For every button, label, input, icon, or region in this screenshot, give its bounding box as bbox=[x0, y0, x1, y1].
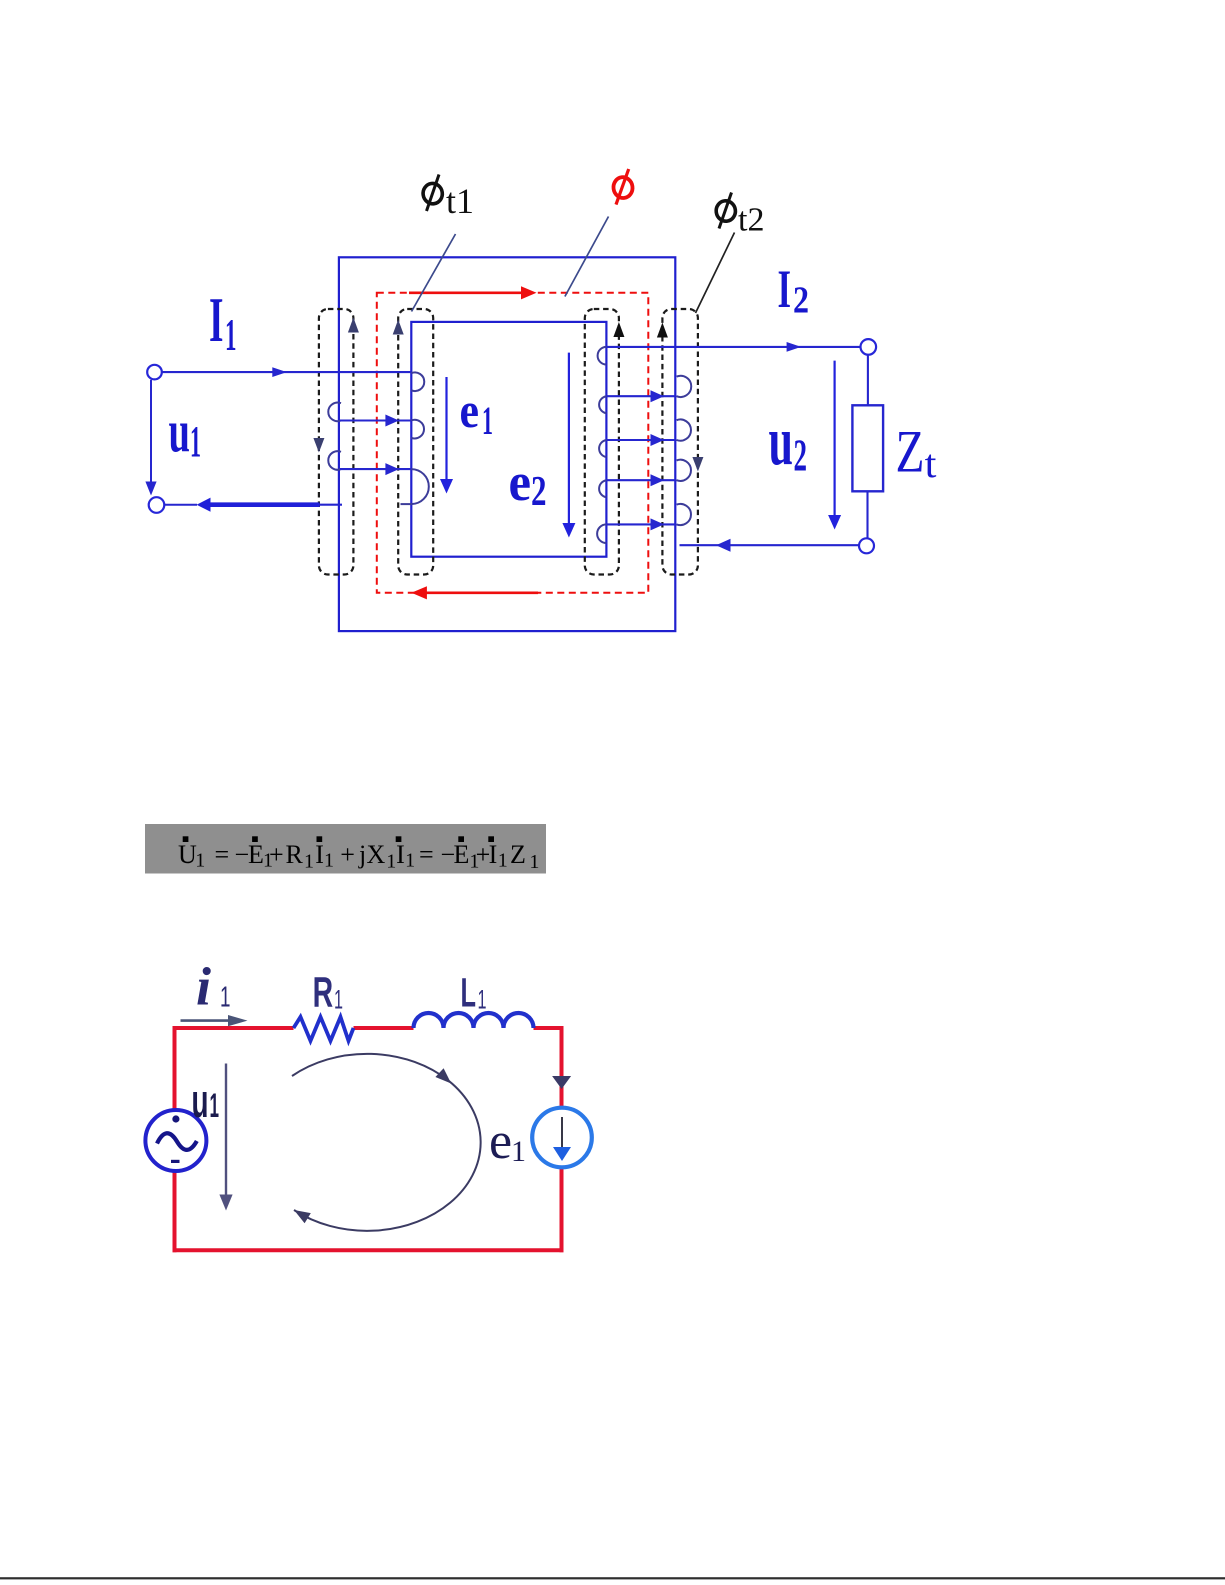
svg-text:I: I bbox=[315, 840, 324, 869]
svg-text:1: 1 bbox=[220, 982, 231, 1014]
primary winding arc right 1 bbox=[411, 372, 424, 391]
flux arrow phi bottom (red) bbox=[411, 586, 538, 599]
wire bottom-left lead (thick part) bbox=[209, 502, 320, 507]
svg-text:Z: Z bbox=[896, 419, 925, 485]
wire bottom-right lead bbox=[680, 544, 860, 546]
primary winding front wire 1 bbox=[340, 419, 411, 421]
wire top (red loop) bbox=[175, 1026, 294, 1030]
terminal circle bottom-right bbox=[859, 538, 874, 553]
label Zt bbox=[896, 419, 937, 486]
svg-text:2: 2 bbox=[531, 469, 547, 515]
label u2 bbox=[769, 403, 808, 481]
svg-text:i: i bbox=[196, 957, 211, 1017]
current arrow I2 on top-right lead bbox=[787, 342, 802, 352]
loop arrow top-right bbox=[435, 1068, 451, 1083]
svg-text:I: I bbox=[778, 259, 792, 319]
primary winding bottom stub bbox=[401, 503, 412, 505]
svg-text:X: X bbox=[367, 840, 386, 869]
svg-text:Z: Z bbox=[510, 840, 526, 869]
leakage flux loop phi-t1 inner (dashed rounded rect) bbox=[398, 309, 433, 575]
secondary winding front wire 1 bbox=[606, 395, 676, 397]
primary winding arc right 2 bbox=[411, 420, 424, 439]
wire top-right lead bbox=[606, 346, 860, 348]
svg-text:2: 2 bbox=[794, 429, 808, 480]
terminal circle top-right bbox=[861, 339, 877, 355]
wire bottom-left lead (thin continuation) bbox=[320, 504, 342, 506]
svg-text:t2: t2 bbox=[738, 202, 764, 239]
svg-text:L: L bbox=[461, 970, 477, 1016]
u1 voltage arrow (between terminals) bbox=[145, 380, 156, 496]
resistor R1 bbox=[294, 1017, 354, 1041]
page footer line bbox=[0, 1577, 1225, 1579]
label phi-t1 bbox=[422, 175, 474, 222]
secondary winding arc right 4 bbox=[677, 504, 691, 525]
i1 current arrow bbox=[181, 1015, 248, 1026]
label u1 bbox=[169, 399, 202, 467]
wire bottom-left lead (thin part near terminal) bbox=[165, 504, 198, 506]
current arrow on primary wire 2 bbox=[385, 463, 399, 475]
primary winding front wire 2 bbox=[340, 468, 411, 470]
current arrow I1 on top-left lead bbox=[272, 367, 287, 377]
secondary winding arc left 3 bbox=[599, 440, 606, 457]
u1 voltage arrow bbox=[219, 1064, 232, 1211]
svg-text:t: t bbox=[925, 441, 937, 486]
svg-text:E: E bbox=[454, 840, 470, 869]
u2 voltage arrow bbox=[828, 361, 841, 530]
e2 emf arrow bbox=[562, 353, 575, 538]
e1 emf arrow bbox=[440, 377, 453, 494]
svg-text:E: E bbox=[248, 840, 264, 869]
arrow on bottom-right lead bbox=[716, 539, 731, 552]
svg-text:u: u bbox=[169, 399, 191, 465]
svg-text:I: I bbox=[209, 284, 224, 355]
svg-text:1: 1 bbox=[386, 851, 396, 873]
arrow on bottom-left lead bbox=[197, 498, 211, 512]
wire top-left lead bbox=[162, 371, 411, 373]
svg-text:e: e bbox=[489, 1113, 512, 1170]
current arrow on secondary wire 4 bbox=[651, 518, 665, 530]
svg-text:U: U bbox=[178, 840, 197, 869]
leakage arrow up on left-outer loop bbox=[348, 318, 359, 333]
current arrow on secondary wire 3 bbox=[651, 474, 665, 486]
svg-text:t1: t1 bbox=[446, 181, 474, 221]
pointer line phi-t1 bbox=[412, 234, 456, 312]
current arrow on primary wire 1 bbox=[385, 415, 399, 427]
svg-text:1: 1 bbox=[482, 398, 493, 443]
svg-text:1: 1 bbox=[190, 417, 201, 466]
current arrow on secondary wire 2 bbox=[651, 434, 665, 446]
svg-text:2: 2 bbox=[793, 280, 809, 322]
svg-text:1: 1 bbox=[324, 850, 334, 872]
leakage arrow down on left-outer loop bbox=[313, 438, 324, 453]
label e2 (winding emf) bbox=[509, 452, 547, 515]
wire right (red loop) bbox=[560, 1026, 564, 1108]
leakage flux loop phi-t2 outer (dashed rounded rect) bbox=[662, 309, 698, 575]
svg-text:e: e bbox=[509, 452, 532, 512]
svg-text:1: 1 bbox=[304, 851, 314, 873]
svg-text:+: + bbox=[269, 840, 284, 869]
secondary winding arc left 1 bbox=[598, 347, 607, 365]
phasor dots over equation letters bbox=[183, 836, 494, 842]
label phi-t2 bbox=[715, 193, 765, 239]
svg-text:=: = bbox=[419, 840, 434, 869]
primary winding arc left 2 bbox=[328, 451, 341, 470]
secondary winding arc right 1 bbox=[677, 376, 692, 397]
svg-text:j: j bbox=[358, 840, 366, 869]
primary winding arc right 3 (large) bbox=[411, 469, 429, 504]
svg-text:R: R bbox=[286, 840, 304, 869]
equation background bbox=[145, 824, 546, 874]
svg-text:1: 1 bbox=[210, 1087, 220, 1125]
secondary winding arc left 2 bbox=[599, 396, 606, 413]
current arrow on secondary wire 1 bbox=[651, 390, 665, 402]
leakage arrow up on right-outer loop (black) bbox=[657, 323, 668, 338]
AC source u1 bbox=[145, 1110, 206, 1171]
svg-text:1: 1 bbox=[195, 850, 205, 872]
svg-text:1: 1 bbox=[529, 851, 539, 873]
svg-text:1: 1 bbox=[225, 309, 237, 360]
wire bottom (red loop) bbox=[173, 1248, 564, 1252]
loop direction ellipse bbox=[292, 1054, 481, 1231]
inductor L1 bbox=[414, 1013, 534, 1028]
wire right circuit upper bbox=[867, 355, 869, 406]
leakage arrow up on right-inner loop (black) bbox=[613, 322, 624, 337]
leakage flux loop phi-t2 inner (dashed rounded rect) bbox=[585, 309, 619, 575]
secondary winding arc right 3 bbox=[677, 460, 691, 481]
svg-text:I: I bbox=[396, 840, 405, 869]
svg-text:−: − bbox=[235, 840, 250, 869]
svg-text:+: + bbox=[340, 840, 355, 869]
core inner window rectangle bbox=[411, 322, 606, 557]
core outer rectangle bbox=[339, 257, 675, 631]
loop arrow bottom-left bbox=[294, 1210, 311, 1223]
svg-text:R: R bbox=[313, 969, 334, 1017]
secondary winding arc right 2 bbox=[677, 420, 691, 441]
secondary winding front wire 3 bbox=[606, 479, 676, 481]
wire left (red loop) bbox=[173, 1171, 177, 1253]
secondary winding front wire 2 bbox=[606, 439, 676, 441]
svg-text:u: u bbox=[769, 403, 794, 480]
svg-text:1: 1 bbox=[405, 850, 415, 872]
primary winding arc left 1 bbox=[328, 403, 341, 422]
terminal circle top-left bbox=[147, 365, 162, 380]
equation text bbox=[178, 840, 539, 873]
secondary winding arc left 5 bbox=[597, 524, 606, 543]
arrow on right wire bbox=[552, 1076, 571, 1089]
label I2 bbox=[778, 259, 810, 322]
leakage flux loop phi-t1 outer (dashed rounded rect) bbox=[319, 309, 354, 575]
main flux path (red dashed rectangle) bbox=[377, 293, 649, 593]
svg-text:1: 1 bbox=[511, 1135, 526, 1168]
svg-text:=: = bbox=[215, 840, 230, 869]
terminal circle bottom-left bbox=[149, 497, 165, 513]
label phi (red) bbox=[612, 169, 634, 205]
current source e1 bbox=[532, 1108, 592, 1168]
svg-text:1: 1 bbox=[498, 850, 508, 872]
svg-text:u: u bbox=[192, 1074, 209, 1127]
load impedance Zt box bbox=[852, 405, 883, 491]
svg-text:1: 1 bbox=[478, 985, 487, 1015]
label u1 bbox=[192, 1074, 220, 1127]
leakage arrow down on right-outer loop bbox=[692, 457, 703, 472]
svg-text:1: 1 bbox=[334, 985, 343, 1015]
leakage arrow up on left-inner loop bbox=[393, 320, 404, 335]
flux arrow phi top (red) bbox=[409, 286, 537, 299]
pointer line phi bbox=[565, 217, 609, 297]
label e1 (winding emf) bbox=[460, 382, 494, 443]
secondary winding front wire 4 bbox=[606, 523, 676, 525]
pointer line phi-t2 bbox=[696, 233, 735, 314]
label I1 bbox=[209, 284, 237, 360]
svg-text:I: I bbox=[489, 840, 498, 869]
svg-text:e: e bbox=[460, 382, 480, 438]
secondary winding arc left 4 bbox=[599, 480, 606, 497]
wire right circuit lower bbox=[866, 491, 868, 538]
